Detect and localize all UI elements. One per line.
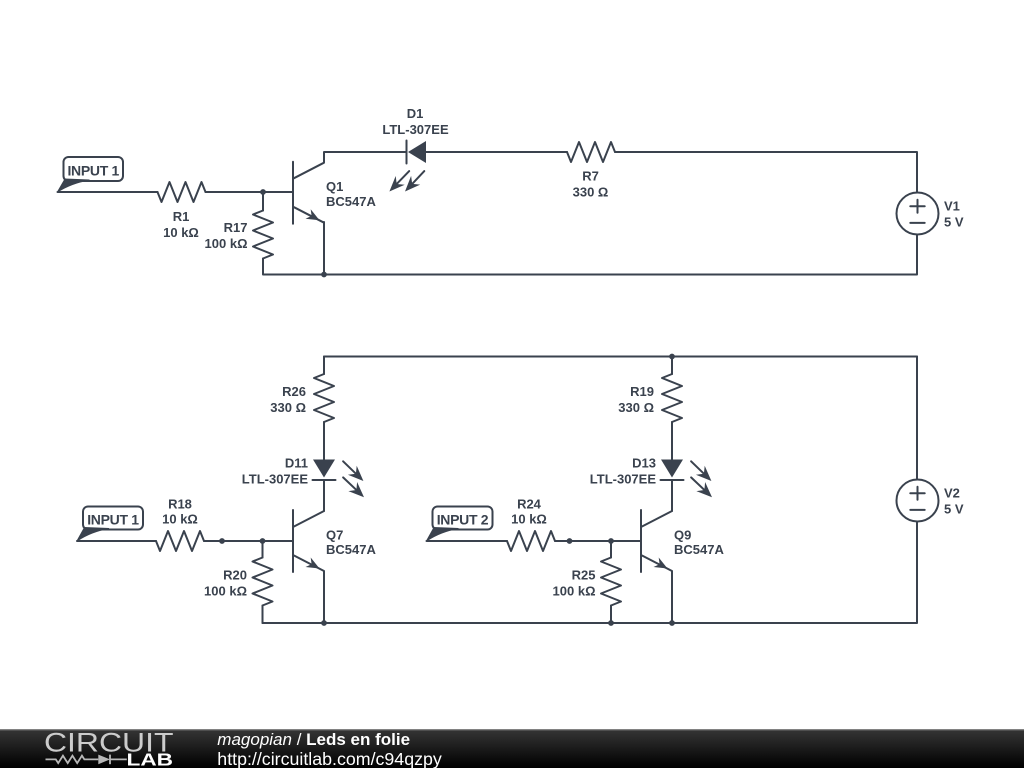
node emitter of Q7 bbox=[321, 620, 327, 626]
svg-text:R20: R20 bbox=[223, 568, 247, 583]
svg-text:BC547A: BC547A bbox=[326, 194, 376, 209]
svg-text:R17: R17 bbox=[224, 220, 248, 235]
svg-text:R24: R24 bbox=[517, 497, 542, 512]
footer url bbox=[217, 749, 442, 768]
svg-text:R25: R25 bbox=[572, 568, 596, 583]
svg-text:INPUT 2: INPUT 2 bbox=[437, 511, 489, 527]
svg-text:R26: R26 bbox=[282, 384, 306, 399]
voltage source V1 bbox=[897, 193, 964, 235]
node top rail junction bbox=[669, 354, 675, 360]
LED D1 bbox=[382, 106, 449, 191]
svg-text:330 Ω: 330 Ω bbox=[573, 185, 609, 200]
flag INPUT 2 bbox=[427, 507, 493, 542]
node under R25 bbox=[608, 620, 614, 626]
wire bbox=[324, 235, 917, 275]
svg-text:LTL-307EE: LTL-307EE bbox=[242, 471, 309, 486]
svg-text:V2: V2 bbox=[944, 486, 960, 501]
svg-text:330 Ω: 330 Ω bbox=[618, 400, 654, 415]
svg-text:magopian / Leds en folie: magopian / Leds en folie bbox=[217, 730, 410, 749]
transistor Q1 bbox=[293, 162, 376, 224]
voltage source V2 bbox=[897, 480, 964, 522]
wire bbox=[77, 540, 156, 542]
transistor Q7 bbox=[293, 510, 376, 572]
svg-text:10 kΩ: 10 kΩ bbox=[162, 512, 198, 527]
wire bbox=[671, 357, 673, 375]
svg-text:LTL-307EE: LTL-307EE bbox=[382, 122, 449, 137]
node after R18 bbox=[219, 538, 225, 544]
svg-text:10 kΩ: 10 kΩ bbox=[511, 512, 547, 527]
wire bbox=[611, 606, 672, 624]
LED D11 bbox=[242, 456, 364, 498]
wire bbox=[323, 357, 325, 375]
svg-text:100 kΩ: 100 kΩ bbox=[205, 236, 248, 251]
resistor R7 bbox=[567, 142, 615, 200]
wire bbox=[916, 357, 918, 480]
wire bbox=[671, 422, 673, 460]
svg-text:V1: V1 bbox=[944, 199, 960, 214]
svg-text:10 kΩ: 10 kΩ bbox=[163, 225, 199, 240]
wire bbox=[323, 422, 325, 460]
resistor R25 bbox=[553, 541, 621, 606]
wire bbox=[671, 480, 673, 511]
resistor R17 bbox=[205, 192, 273, 259]
wire bbox=[263, 259, 324, 275]
wire bbox=[671, 572, 673, 624]
svg-text:5 V: 5 V bbox=[944, 502, 964, 517]
node emitter of Q9 bbox=[669, 620, 675, 626]
svg-text:BC547A: BC547A bbox=[326, 542, 376, 557]
wire bbox=[323, 222, 325, 275]
svg-text:INPUT 1: INPUT 1 bbox=[87, 511, 139, 527]
transistor Q9 bbox=[641, 510, 724, 572]
wire bbox=[323, 480, 325, 511]
svg-text:R7: R7 bbox=[582, 169, 599, 184]
node after R24 bbox=[567, 538, 573, 544]
flag INPUT 1 bbox=[58, 157, 124, 192]
svg-text:http://circuitlab.com/c94qzpy: http://circuitlab.com/c94qzpy bbox=[217, 749, 442, 768]
resistor R19 bbox=[618, 374, 682, 422]
wire bbox=[323, 572, 325, 624]
svg-text:Q7: Q7 bbox=[326, 528, 343, 543]
svg-text:D11: D11 bbox=[285, 456, 308, 471]
svg-text:5 V: 5 V bbox=[944, 215, 964, 230]
wire top rail bbox=[324, 356, 917, 358]
svg-text:330 Ω: 330 Ω bbox=[270, 400, 306, 415]
svg-text:R19: R19 bbox=[630, 384, 654, 399]
svg-text:R18: R18 bbox=[168, 497, 192, 512]
resistor R18 bbox=[156, 497, 204, 551]
wire bbox=[615, 152, 917, 192]
footer title bbox=[217, 730, 410, 749]
svg-text:LAB: LAB bbox=[127, 749, 174, 768]
svg-text:100 kΩ: 100 kΩ bbox=[204, 584, 247, 599]
resistor R24 bbox=[507, 497, 555, 551]
wire bbox=[204, 540, 293, 542]
wire bbox=[206, 191, 294, 193]
wire bbox=[427, 540, 508, 542]
wire bbox=[263, 606, 325, 624]
wire bbox=[555, 540, 641, 542]
node emitter of Q1 bbox=[321, 272, 327, 278]
svg-text:R1: R1 bbox=[173, 209, 190, 224]
svg-text:Q1: Q1 bbox=[326, 179, 343, 194]
CircuitLab logo bbox=[44, 728, 174, 768]
svg-text:BC547A: BC547A bbox=[674, 542, 724, 557]
wire bbox=[263, 522, 918, 624]
wire bbox=[324, 152, 407, 162]
svg-text:LTL-307EE: LTL-307EE bbox=[590, 471, 657, 486]
svg-text:D1: D1 bbox=[407, 106, 424, 121]
wire bbox=[58, 191, 158, 193]
wire bbox=[426, 151, 567, 153]
resistor R20 bbox=[204, 541, 272, 606]
svg-text:INPUT 1: INPUT 1 bbox=[67, 162, 119, 178]
node base of Q1 bbox=[260, 189, 266, 195]
LED D13 bbox=[590, 456, 712, 498]
node base of Q7 bbox=[260, 538, 266, 544]
svg-text:D13: D13 bbox=[632, 456, 656, 471]
svg-text:100 kΩ: 100 kΩ bbox=[553, 584, 596, 599]
svg-text:Q9: Q9 bbox=[674, 528, 691, 543]
resistor R26 bbox=[270, 374, 334, 422]
node base of Q9 bbox=[608, 538, 614, 544]
resistor R1 bbox=[158, 182, 206, 240]
flag INPUT 1 (second) bbox=[77, 507, 143, 542]
